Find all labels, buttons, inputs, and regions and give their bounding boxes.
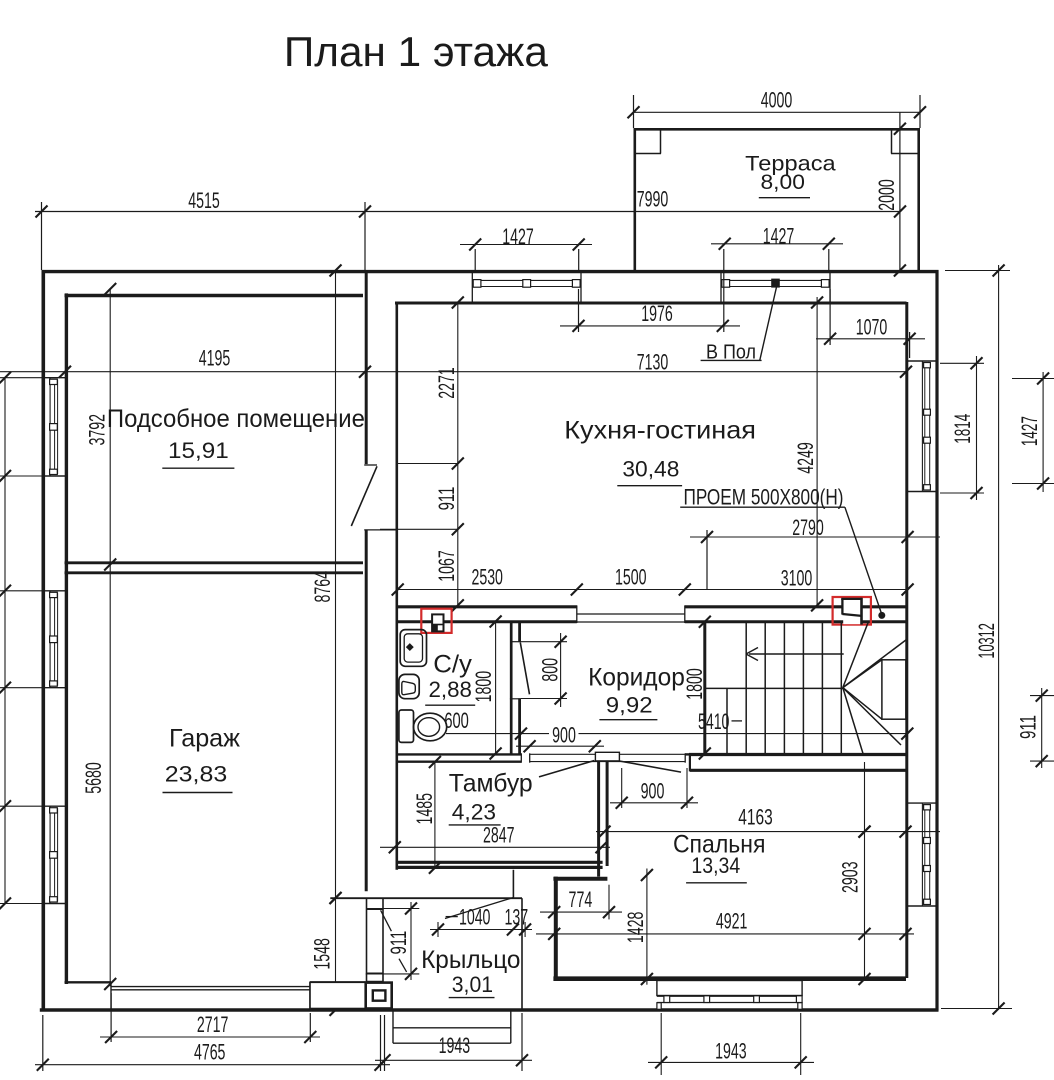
dimension 911 (right margin) [1016, 688, 1054, 768]
svg-text:2271: 2271 [434, 367, 459, 399]
svg-text:План 1 этажа: План 1 этажа [284, 28, 549, 75]
dimension line 2530/1500/3100 [392, 565, 914, 596]
window W8 спальня bottom [657, 981, 802, 1010]
title: План 1 этажа [284, 28, 549, 75]
room label Тамбур 4,23 [449, 770, 533, 825]
dimension chain 3792/5680 (x=110) [81, 283, 116, 990]
room label С/у 2,88 [425, 651, 475, 706]
svg-text:3100: 3100 [781, 566, 813, 591]
спальня left wall band [599, 762, 608, 877]
svg-text:4000: 4000 [761, 88, 793, 113]
outer wall bottom [40, 1008, 939, 1011]
svg-text:8764: 8764 [310, 571, 335, 603]
window W3 left wall (гараж lower) [43, 806, 66, 903]
svg-text:1976: 1976 [641, 301, 673, 326]
svg-text:4515: 4515 [188, 188, 220, 213]
jamb крыльцо/тамбур [512, 870, 514, 898]
svg-text:911: 911 [434, 487, 459, 511]
svg-text:1428: 1428 [623, 912, 648, 944]
room label Коридор 9,92 [588, 663, 685, 719]
svg-text:ПРОЕМ 500Х800(Н): ПРОЕМ 500Х800(Н) [684, 485, 844, 510]
dimension 1943 (эркер) [648, 1013, 814, 1075]
svg-text:4163: 4163 [738, 805, 773, 830]
svg-text:1485: 1485 [412, 793, 437, 825]
room label Кухня-гостиная 30,48 [564, 417, 756, 486]
dimension 2790 [690, 515, 940, 590]
svg-text:5410: 5410 [698, 709, 730, 734]
dimension chain 2271/911/1067 (x=458) [380, 297, 464, 612]
dimension 4163 [596, 805, 940, 838]
dimension 1485 [412, 756, 441, 874]
wall between подсобное and гараж [65, 563, 364, 573]
dimension 4765 [35, 1015, 390, 1071]
dimension line 5410 with label 900 [446, 723, 913, 748]
svg-text:Гараж: Гараж [169, 725, 240, 753]
svg-text:4249: 4249 [793, 442, 818, 474]
dimension 800 (С/у door) [521, 633, 567, 707]
column section symbol [366, 983, 392, 1009]
svg-text:600: 600 [444, 708, 469, 733]
svg-text:2717: 2717 [197, 1012, 229, 1037]
room label Подсобное помещение 15,91 [107, 405, 365, 468]
porch pillar strip [367, 899, 384, 982]
room label Терраса 8,00 [745, 151, 835, 197]
outer wall left [41, 270, 45, 1011]
room label Спальня 13,34 [673, 831, 766, 883]
dimension 1428 [623, 869, 653, 986]
terrace pillar top-left [634, 128, 661, 154]
window W2 left wall (гараж upper) [43, 591, 66, 688]
svg-text:2903: 2903 [837, 861, 862, 893]
kitchen inner top wall [395, 302, 907, 305]
dimension 10312 [941, 265, 1012, 1015]
porch steps [393, 1010, 511, 1043]
крыльцо top line [330, 892, 523, 904]
outer wall top [42, 270, 939, 273]
window W5 top wall (кухня right, В Пол marker) [721, 272, 830, 303]
svg-text:911: 911 [386, 931, 411, 955]
svg-text:1943: 1943 [715, 1038, 747, 1063]
svg-text:13,34: 13,34 [691, 853, 740, 878]
svg-text:30,48: 30,48 [622, 457, 679, 482]
svg-text:3,01: 3,01 [452, 972, 493, 997]
svg-text:774: 774 [569, 887, 593, 912]
label В Пол with leader [701, 288, 777, 364]
dimension 1943 (крыльцо) [375, 1013, 532, 1071]
svg-text:7990: 7990 [637, 187, 669, 212]
dimension 900 (дверь спальня) [610, 768, 698, 809]
central wall east line [395, 302, 398, 870]
window W1 left wall (подсобное) [43, 378, 66, 476]
svg-text:9,92: 9,92 [606, 693, 653, 718]
terrace dimension 4000 [628, 88, 927, 129]
dimension 1814 [940, 356, 984, 500]
dimension 2903 [837, 762, 870, 985]
svg-text:7130: 7130 [637, 350, 669, 375]
room label Гараж 23,83 [163, 725, 241, 793]
inner wall line right [905, 302, 908, 978]
label 1040 with leader [445, 898, 513, 930]
svg-text:Крыльцо: Крыльцо [421, 946, 520, 974]
label 5410 with dash [698, 709, 742, 734]
wall band кухня/коридор bottom line [397, 620, 908, 623]
dimension 1800 (С/у) [471, 616, 502, 760]
vent shaft marker (лестница) red box [833, 597, 871, 625]
dimension 4921 [536, 909, 914, 940]
dimension chain 8764/1548 (x=335) [309, 265, 341, 1016]
stair mid landing line [705, 687, 844, 689]
svg-text:1067: 1067 [434, 550, 459, 582]
спальня notch walls [553, 877, 607, 979]
door leaf тамбур-коридор [539, 761, 594, 777]
dimension 1800 (коридор) [682, 616, 711, 760]
svg-text:1500: 1500 [615, 565, 647, 590]
svg-text:10312: 10312 [974, 623, 999, 659]
svg-text:Тамбур: Тамбур [449, 770, 533, 798]
dimension 4249 (x=817) [793, 297, 823, 612]
inner wall line left (подсобное/гараж side) [65, 293, 68, 984]
dimension line 4515/7990 across top [35, 187, 906, 271]
крыльцо right edge [521, 898, 523, 1008]
svg-text:4195: 4195 [199, 346, 231, 371]
vent symbol С/у [432, 614, 443, 631]
terrace walls [634, 128, 921, 271]
svg-text:1427: 1427 [763, 223, 795, 248]
window W7 right wall (спальня) [907, 803, 938, 906]
svg-text:1040: 1040 [459, 905, 491, 930]
wall коридор bottom band [397, 753, 690, 762]
vent shaft marker (С/у) red box [421, 609, 451, 633]
svg-text:15,91: 15,91 [168, 438, 229, 463]
threshold рамка [595, 752, 619, 761]
dimension 2847 [380, 823, 610, 854]
svg-text:3792: 3792 [85, 414, 110, 446]
svg-text:2000: 2000 [874, 179, 899, 211]
svg-text:900: 900 [641, 778, 665, 803]
stair direction arrow [746, 648, 844, 661]
dimension 2717 [100, 993, 320, 1043]
svg-text:Коридор: Коридор [588, 663, 685, 691]
svg-text:4921: 4921 [716, 909, 748, 934]
label 600 [444, 708, 469, 733]
dimension 774 [540, 885, 622, 920]
stair landing rectangle [882, 660, 906, 719]
лестница bottom wall band [689, 753, 907, 771]
vent symbol лестница [841, 598, 862, 625]
тамбур bottom wall [397, 862, 603, 867]
svg-text:С/у: С/у [433, 651, 472, 679]
svg-text:2847: 2847 [483, 823, 515, 848]
fixture: раковина [399, 674, 419, 698]
svg-text:800: 800 [538, 658, 563, 682]
label 137 [504, 905, 528, 930]
svg-text:2,88: 2,88 [428, 677, 472, 702]
подсобное inner top wall [65, 294, 364, 297]
svg-text:5680: 5680 [81, 762, 106, 794]
fixture: toilet (унитаз) [399, 710, 447, 742]
central wall west line [365, 270, 368, 891]
спальня bottom inner wall [553, 976, 906, 981]
svg-text:1814: 1814 [950, 414, 975, 444]
svg-text:900: 900 [552, 723, 576, 748]
left margin extension lines and dim chain [0, 372, 42, 910]
dimension 1427 (right margin) [1012, 372, 1054, 492]
door leaf подсобное [351, 466, 377, 526]
svg-text:23,83: 23,83 [165, 762, 228, 787]
dimension 900 (дверь тамбур) [516, 740, 604, 752]
dimension 911 (крыльцо) [366, 902, 420, 980]
svg-text:911: 911 [1016, 715, 1041, 739]
гараж inner bottom wall [65, 981, 366, 983]
pier right of garage door [310, 982, 367, 1008]
window W4 top wall (кухня left) [472, 272, 581, 303]
svg-text:1548: 1548 [309, 938, 334, 970]
svg-text:1800: 1800 [682, 668, 707, 700]
svg-text:1427: 1427 [502, 224, 534, 249]
terrace pillar top-right [891, 128, 920, 154]
svg-text:2790: 2790 [792, 515, 824, 540]
fixture: sink (умывальник) [400, 630, 426, 667]
label ПРОЕМ 500Х800(Н) with leader [680, 485, 881, 614]
stair winder fan [843, 623, 906, 754]
node: проем dot [878, 612, 885, 619]
terrace dimension 2000 [874, 112, 906, 276]
svg-text:1800: 1800 [471, 671, 496, 703]
wall band кухня/коридор top line [397, 605, 908, 608]
С/у right wall band [510, 622, 521, 754]
outer wall right [935, 270, 938, 1011]
svg-text:4,23: 4,23 [452, 799, 496, 824]
svg-text:8,00: 8,00 [761, 170, 805, 194]
door leaf С/у [520, 643, 529, 695]
svg-text:Подсобное помещение: Подсобное помещение [107, 405, 365, 433]
dimension 1427 (window W5) [711, 223, 843, 272]
ворота гаража [111, 982, 310, 1008]
door подсобное-кухня jambs [364, 465, 397, 530]
svg-text:Кухня-гостиная: Кухня-гостиная [564, 417, 756, 445]
svg-text:2530: 2530 [471, 565, 503, 590]
dimension 1976 [560, 249, 740, 332]
dimension 1427 (window W4) [460, 224, 592, 272]
svg-text:1427: 1427 [1017, 416, 1042, 446]
opening 1500 lintel lines [577, 605, 685, 623]
svg-text:1943: 1943 [439, 1033, 471, 1058]
room label Крыльцо 3,01 [421, 946, 520, 998]
dimension line 4195/7130 [0, 346, 912, 378]
svg-text:4765: 4765 [194, 1039, 226, 1064]
window W6 right wall (кухня) [907, 361, 938, 492]
door leaf спальня [619, 761, 681, 772]
svg-text:1070: 1070 [856, 315, 888, 340]
dimension 1070 [816, 289, 925, 358]
dimension line 1040/137 [430, 922, 532, 937]
stair treads [727, 623, 841, 754]
